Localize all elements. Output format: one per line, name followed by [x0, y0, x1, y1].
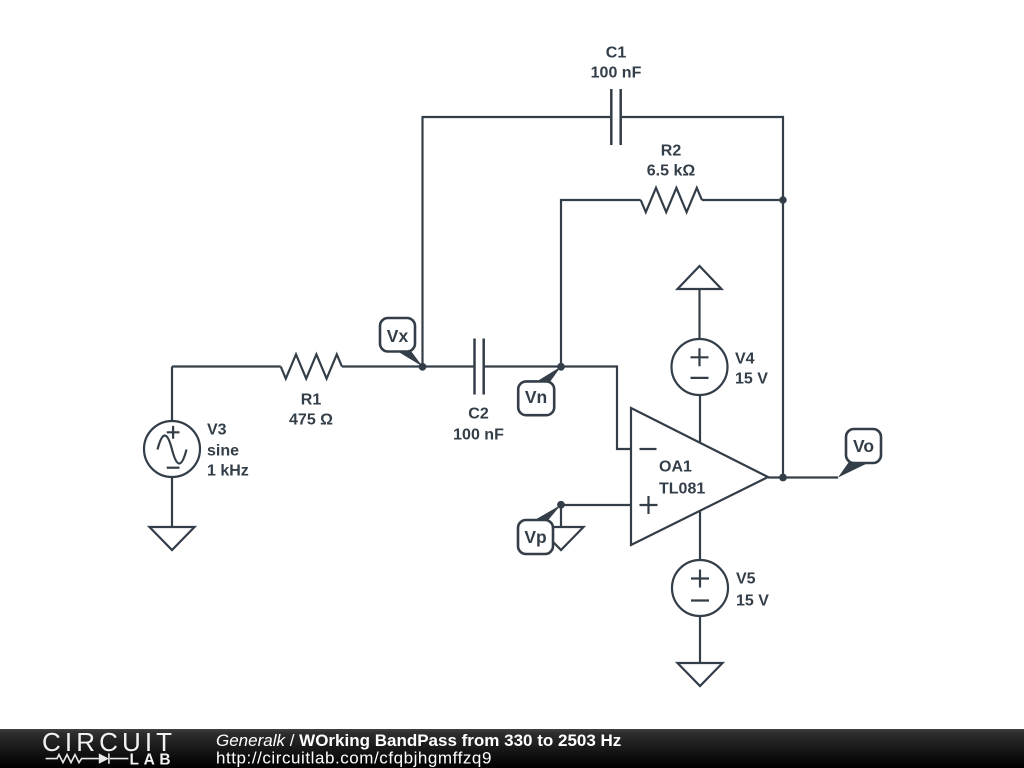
- capacitor C1: [611, 89, 620, 145]
- junction node at Vn: [557, 363, 565, 371]
- ground for V5: [678, 663, 723, 686]
- svg-text:V3: V3: [207, 422, 227, 439]
- wire R2 right lead: [702, 199, 783, 201]
- svg-text:TL081: TL081: [659, 481, 705, 498]
- wire C1 left lead: [422, 116, 611, 118]
- ground for V3: [150, 527, 195, 550]
- node label Vn: [518, 367, 561, 416]
- wire Vx node up to C1 branch: [421, 117, 423, 368]
- wire Vn node up to R2 left: [560, 199, 562, 368]
- wire R1 to C2 left plate (through Vx node): [342, 365, 474, 367]
- svg-text:R2: R2: [661, 143, 682, 160]
- svg-text:OA1: OA1: [659, 459, 692, 476]
- svg-text:Vp: Vp: [524, 527, 546, 547]
- power rail arrow for V4: [678, 266, 722, 289]
- V3 sine symbol: [158, 436, 187, 464]
- resistor R2: [641, 188, 702, 212]
- V5 minus sign: [691, 599, 709, 601]
- wire Vp ground stub: [560, 505, 562, 527]
- capacitor C2: [475, 339, 484, 395]
- svg-text:Vx: Vx: [387, 326, 409, 346]
- junction node R2/feedback: [779, 196, 786, 203]
- wire op-amp output: [768, 476, 838, 478]
- op-amp U1 triangle: [631, 408, 768, 545]
- wire feedback right column (R2 node to output node): [782, 200, 784, 478]
- resistor R1: [281, 354, 342, 378]
- junction node at Vp: [557, 501, 565, 509]
- wire V4 top lead: [698, 289, 700, 339]
- wire op-amp noninverting input: [561, 504, 631, 506]
- svg-text:Vn: Vn: [525, 387, 547, 407]
- node label Vp: [518, 505, 561, 554]
- svg-text:1 kHz: 1 kHz: [207, 463, 249, 480]
- svg-text:http://circuitlab.com/cfqbjhgm: http://circuitlab.com/cfqbjhgmffzq9: [216, 749, 492, 768]
- V4 plus sign: [691, 348, 709, 366]
- voltage source V3 circle: [144, 421, 200, 477]
- wire Vn node to op-amp inverting input: [561, 367, 631, 450]
- V5 plus sign: [691, 570, 709, 588]
- svg-text:475 Ω: 475 Ω: [289, 412, 333, 429]
- svg-text:V5: V5: [736, 571, 756, 588]
- svg-text:LAB: LAB: [130, 752, 176, 768]
- ground for Vp: [539, 527, 584, 550]
- svg-text:100 nF: 100 nF: [591, 65, 642, 82]
- wire R2 left lead: [560, 199, 641, 201]
- svg-text:C1: C1: [606, 45, 627, 62]
- svg-text:Generalk / WOrking BandPass fr: Generalk / WOrking BandPass from 330 to …: [216, 731, 621, 750]
- wire op-amp top power pin: [699, 395, 701, 443]
- wire V3 top lead: [171, 367, 173, 422]
- wire feedback right column (C1 to R2 node): [782, 116, 784, 200]
- wire V5 bottom lead: [699, 616, 701, 663]
- junction node at Vx: [419, 363, 427, 371]
- wire V3 to R1: [172, 365, 281, 367]
- svg-text:Vo: Vo: [853, 436, 874, 456]
- wire C1 right lead: [622, 116, 784, 118]
- wire op-amp bottom power pin: [699, 510, 701, 560]
- svg-text:R1: R1: [301, 392, 322, 409]
- voltage source V4 circle: [672, 339, 728, 395]
- svg-text:15 V: 15 V: [736, 593, 769, 610]
- node label Vo: [838, 429, 881, 478]
- wire V3 bottom lead: [171, 477, 173, 527]
- op-amp minus symbol: [640, 448, 657, 450]
- footer bar: [0, 729, 1024, 768]
- V3 plus sign: [167, 426, 180, 439]
- svg-text:6.5 kΩ: 6.5 kΩ: [647, 163, 696, 180]
- footer logo diode: [99, 753, 109, 763]
- junction node at output: [779, 474, 787, 482]
- V4 minus sign: [691, 377, 709, 379]
- V3 minus sign: [167, 467, 180, 469]
- voltage source V5 circle: [672, 560, 728, 616]
- svg-text:15 V: 15 V: [735, 371, 768, 388]
- svg-text:100 nF: 100 nF: [453, 427, 504, 444]
- svg-text:C2: C2: [468, 406, 489, 423]
- wire C2 right lead to Vn node: [485, 365, 562, 367]
- footer logo schematic squiggle: [46, 753, 129, 763]
- op-amp plus symbol: [640, 496, 658, 514]
- node label Vx: [380, 318, 423, 367]
- svg-text:V4: V4: [735, 351, 755, 368]
- svg-text:sine: sine: [207, 443, 239, 460]
